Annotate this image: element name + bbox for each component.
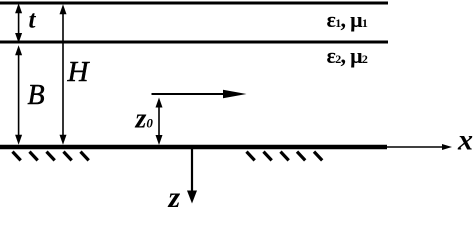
- ground hatching left group: [13, 152, 89, 161]
- dimension arrow B (between interface and ground): [15, 45, 22, 145]
- ground plane line: [0, 145, 387, 150]
- ground hatching right group: [247, 152, 323, 161]
- svg-text:z: z: [168, 181, 181, 209]
- top conductor line (layer 1 top boundary): [0, 2, 388, 5]
- source direction arrow (horizontal, above z0): [152, 90, 247, 98]
- x axis: [387, 144, 452, 150]
- svg-text:ε1, μ1: ε1, μ1: [327, 7, 368, 32]
- svg-text:t: t: [29, 7, 37, 34]
- dimension arrow z0 (source height above ground): [156, 98, 163, 146]
- svg-text:H: H: [67, 56, 91, 88]
- z axis: [187, 149, 197, 204]
- svg-text:x: x: [457, 124, 473, 157]
- svg-text:B: B: [28, 80, 45, 111]
- dimension arrow H (between top line and ground): [60, 4, 67, 145]
- dielectric interface line (between layer 1 and layer 2): [0, 41, 388, 44]
- svg-text:z0: z0: [135, 104, 154, 135]
- svg-text:ε2, μ2: ε2, μ2: [327, 43, 368, 68]
- dimension arrow t (between top line and interface): [15, 3, 22, 43]
